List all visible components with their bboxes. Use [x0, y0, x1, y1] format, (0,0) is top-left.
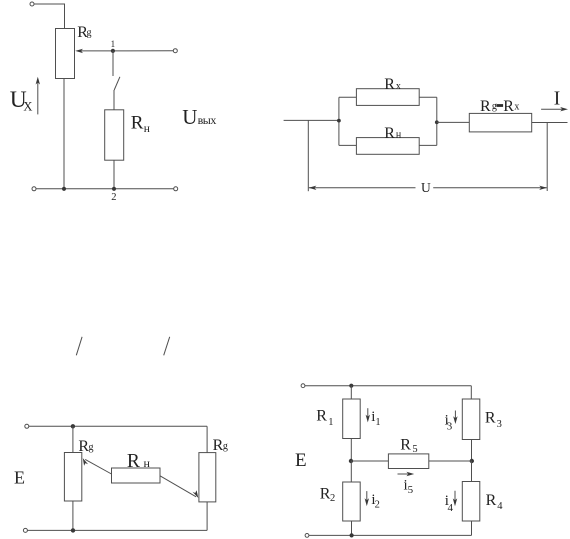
svg-text:R: R: [131, 113, 144, 134]
junction dot node B: [349, 459, 353, 463]
wire below Rg to bottom rail: [63, 79, 65, 189]
wire left bus to Rx: [339, 96, 357, 98]
resistor Rg (potentiometer body, circuit 1): [56, 29, 75, 79]
svg-text:4: 4: [448, 502, 454, 514]
svg-text:1: 1: [375, 417, 380, 428]
svg-text:2: 2: [330, 493, 335, 504]
svg-text:R: R: [127, 451, 140, 472]
wire R4 to bottom rail: [471, 521, 473, 535]
svg-text:2: 2: [375, 499, 380, 510]
wire left bus to Rн (circuit 2): [339, 144, 357, 146]
wire switch to Rн: [113, 90, 115, 110]
wiper arrow to left pot: [85, 459, 111, 474]
bottom rail (circuit 3): [27, 529, 207, 531]
dimension line U right segment with arrow: [433, 187, 547, 189]
terminal top-left (circuit 4): [301, 384, 305, 388]
node 2 junction dot: [112, 187, 116, 191]
resistor R2: [343, 482, 361, 521]
svg-text:R: R: [485, 409, 496, 426]
wire node B to R2: [350, 461, 352, 482]
svg-text:4: 4: [497, 501, 503, 512]
arrow Ux (up): [37, 79, 39, 114]
wire Rн to right bus: [419, 144, 437, 146]
dimension drop line right: [546, 123, 548, 192]
svg-text:R: R: [384, 76, 395, 93]
wire from input terminal to top of Rg: [34, 4, 65, 29]
wire Rx to right bus: [419, 96, 437, 98]
svg-text:g: g: [89, 442, 94, 453]
terminal top-left (circuit 3): [25, 424, 29, 428]
switch blade (open): [114, 77, 120, 90]
wire node C to R4: [471, 461, 473, 482]
potentiometer Rg left body (circuit 3): [64, 453, 81, 502]
current arrow i3: [454, 411, 456, 422]
node 1 junction dot: [111, 49, 115, 53]
resistor Rg-Rx: [469, 113, 531, 131]
svg-text:I: I: [554, 88, 561, 109]
wire R1 to node B: [350, 439, 352, 462]
wire right bus to Rg-Rx: [437, 121, 470, 123]
svg-text:R: R: [480, 98, 491, 115]
dimension drop line left: [307, 120, 309, 191]
svg-text:R: R: [316, 407, 327, 424]
svg-text:вых: вых: [198, 113, 217, 127]
svg-text:5: 5: [412, 444, 417, 455]
slash mark a: [76, 337, 82, 356]
dimension line U left segment with arrow: [309, 187, 416, 189]
svg-text:g: g: [87, 27, 92, 38]
main left wire (circuit 2): [284, 119, 339, 121]
svg-text:3: 3: [447, 421, 453, 433]
svg-text:2: 2: [111, 192, 116, 203]
terminal bottom-left (circuit 3): [23, 528, 27, 532]
svg-text:g: g: [492, 101, 497, 112]
current arrow i4: [454, 491, 456, 504]
left parallel bus: [338, 97, 340, 145]
svg-text:U: U: [182, 105, 197, 129]
terminal bottom-left (circuit 1): [32, 187, 36, 191]
slash mark b: [164, 337, 170, 356]
junction dot node C: [470, 459, 474, 463]
junction dot top (circuit 3): [71, 424, 75, 428]
junction dot bottom (circuit 3): [71, 528, 75, 532]
svg-text:5: 5: [408, 484, 414, 496]
svg-text:x: x: [514, 101, 519, 112]
wire right pot to bottom rail: [206, 502, 208, 531]
svg-text:3: 3: [497, 419, 502, 430]
svg-text:x: x: [396, 81, 401, 92]
resistor R4: [462, 482, 480, 522]
svg-text:R: R: [400, 437, 411, 454]
wire left pot to bottom rail: [72, 501, 74, 530]
svg-text:U: U: [421, 180, 431, 195]
wire R2 to bottom rail: [351, 521, 353, 535]
resistor R3: [462, 399, 480, 440]
wire Rн bottom to node 2: [113, 160, 115, 189]
current arrow I: [541, 108, 565, 110]
right parallel bus: [436, 97, 438, 145]
junction dot left bus: [337, 119, 341, 123]
top rail (circuit 4): [305, 385, 471, 387]
wire top rail down to right pot: [206, 426, 208, 452]
svg-text:g: g: [223, 441, 228, 452]
svg-text:н: н: [396, 130, 402, 141]
potentiometer Rg right body (circuit 3): [199, 453, 216, 502]
svg-text:1: 1: [328, 417, 333, 428]
bottom rail (circuit 4): [309, 534, 472, 536]
svg-text:E: E: [295, 450, 307, 471]
terminal top-left input (circuit 1): [30, 2, 34, 6]
current arrow i5: [398, 473, 412, 475]
junction dot top node (circuit 4): [349, 384, 353, 388]
wire R5 to node C: [429, 460, 472, 462]
wire top rail to left pot: [72, 426, 74, 452]
wire node B to R5: [351, 460, 388, 462]
resistor R5: [388, 454, 428, 469]
current arrow i1: [367, 408, 369, 420]
junction dot at Rg bottom: [62, 187, 66, 191]
resistor Rн body (circuit 3): [112, 468, 161, 483]
wire node 1 to output terminal: [113, 50, 173, 52]
svg-text:R: R: [384, 125, 395, 142]
current arrow i2: [366, 491, 368, 504]
svg-text:E: E: [14, 468, 25, 488]
resistor Rн (circuit 2): [356, 138, 419, 155]
wire Rg-Rx to right edge: [532, 122, 568, 124]
svg-text:н: н: [144, 456, 151, 470]
svg-text:R: R: [486, 492, 497, 509]
junction dot right bus: [435, 120, 439, 124]
svg-text:1: 1: [111, 39, 116, 49]
resistor Rx: [356, 89, 419, 106]
wire node 1 down to switch: [112, 51, 114, 76]
wiper arrow into Rg: [78, 50, 113, 52]
top rail (circuit 3): [29, 425, 207, 427]
resistor Rн (load, circuit 1): [105, 110, 124, 160]
wire R3 to node C: [471, 440, 473, 462]
resistor R1: [343, 399, 361, 439]
junction dot bottom (circuit 4): [350, 533, 354, 537]
terminal bottom-right (circuit 1): [174, 187, 178, 191]
wire top node to R1: [350, 386, 352, 399]
svg-text:X: X: [23, 99, 32, 113]
terminal right (circuit 1): [173, 49, 177, 53]
wire top rail corner down to R3: [470, 386, 472, 399]
wiper arrow to right pot: [160, 476, 196, 497]
terminal bottom-left (circuit 4): [305, 534, 309, 538]
svg-text:н: н: [144, 123, 150, 135]
svg-text:R: R: [503, 98, 514, 115]
bottom rail wire (circuit 1): [36, 188, 174, 190]
